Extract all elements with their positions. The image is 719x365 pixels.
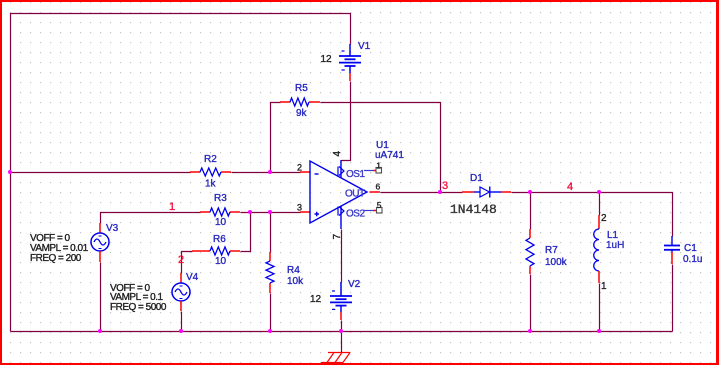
U1 OS2 lead bbox=[364, 210, 373, 212]
wire node 2 horizontal (ground to R2 to U1 pin 2) bbox=[11, 172, 301, 174]
svg-text:10: 10 bbox=[215, 217, 227, 228]
wire L1 branch bbox=[599, 193, 601, 332]
svg-text:FREQ = 5000: FREQ = 5000 bbox=[110, 302, 167, 313]
U1 pin 2 stub bbox=[300, 171, 310, 173]
svg-text:4: 4 bbox=[567, 181, 573, 193]
svg-text:12: 12 bbox=[321, 54, 333, 65]
resistor R4 bbox=[266, 252, 304, 293]
junction at ground rail / V2 and ground symbol bbox=[339, 329, 343, 333]
junction at ground rail / V3 bbox=[98, 329, 102, 333]
svg-text:9k: 9k bbox=[296, 108, 308, 119]
svg-text:R5: R5 bbox=[295, 83, 308, 94]
svg-text:FREQ = 200: FREQ = 200 bbox=[30, 253, 82, 264]
wire C1 bottom to ground rail bbox=[672, 265, 674, 332]
inductor L1 bbox=[594, 213, 625, 292]
wire R4 branch (plus input to ground rail) bbox=[270, 213, 272, 332]
U1 pin 4 stub bbox=[340, 160, 342, 178]
U1 OS1 wedge bbox=[338, 167, 344, 176]
wire bottom ground rail bbox=[11, 331, 673, 333]
U1 pin 1 stub bbox=[373, 170, 377, 172]
junction at ground rail / R4 bbox=[268, 329, 272, 333]
svg-text:1N4148: 1N4148 bbox=[450, 202, 497, 217]
junction at ground rail / R7 bottom bbox=[528, 329, 532, 333]
V1 plus mark bbox=[342, 50, 345, 52]
junction at node 1 / R6 branch bbox=[248, 210, 252, 214]
U1 pin 7 stub bbox=[340, 206, 342, 229]
junction at ground rail / L1 bottom bbox=[597, 329, 601, 333]
junction at ground / node 2 wire bbox=[8, 170, 12, 174]
svg-text:100k: 100k bbox=[545, 257, 568, 268]
resistor R7 bbox=[526, 229, 568, 274]
junction at node 1 / R4 branch bbox=[268, 210, 272, 214]
svg-text:4: 4 bbox=[332, 151, 343, 157]
resistor R2 bbox=[190, 154, 231, 190]
wire V4 bottom to ground rail bbox=[181, 312, 183, 332]
svg-text:6: 6 bbox=[376, 182, 381, 192]
wire R7 branch bbox=[530, 193, 532, 332]
U1 minus input mark bbox=[315, 173, 319, 175]
svg-text:R6: R6 bbox=[213, 234, 226, 245]
svg-text:1uH: 1uH bbox=[606, 240, 624, 251]
svg-text:12: 12 bbox=[310, 294, 322, 305]
U1 plus input mark bbox=[315, 212, 320, 217]
wire V3 bottom to ground rail bbox=[100, 263, 102, 332]
junction at node 2 / R5 branch bbox=[268, 170, 272, 174]
U1 pin 5 stub bbox=[373, 210, 377, 212]
svg-text:OUT: OUT bbox=[345, 189, 365, 200]
svg-text:1: 1 bbox=[376, 160, 381, 170]
V1 minus mark bbox=[342, 69, 345, 71]
svg-text:1: 1 bbox=[169, 201, 175, 213]
svg-text:C1: C1 bbox=[684, 243, 697, 254]
U1 pin 3 stub bbox=[300, 211, 310, 213]
resistor R5 bbox=[280, 83, 320, 119]
svg-text:2: 2 bbox=[178, 254, 184, 266]
source V4 (sine source) bbox=[110, 272, 199, 313]
svg-text:R7: R7 bbox=[545, 245, 558, 256]
svg-text:1k: 1k bbox=[205, 179, 217, 190]
svg-text:V1: V1 bbox=[358, 41, 371, 52]
U1 OS2 wedge bbox=[338, 207, 344, 216]
wire node 4 rail (D1 cathode to C1 top) bbox=[512, 193, 673, 237]
U1 pin 6 OUT stub bbox=[370, 191, 381, 193]
svg-text:0.1u: 0.1u bbox=[683, 254, 702, 265]
diode D1 bbox=[450, 173, 511, 217]
U1 pin 1 terminal square bbox=[376, 168, 382, 174]
svg-text:V3: V3 bbox=[106, 223, 119, 234]
V2 plus mark bbox=[332, 290, 335, 292]
resistor R3 bbox=[200, 193, 240, 228]
junction at node 4 / L1 top bbox=[597, 190, 601, 194]
U1 pin 5 terminal square bbox=[377, 208, 383, 214]
V2 minus mark bbox=[332, 308, 335, 310]
junction at node 3 / feedback bbox=[438, 190, 442, 194]
wire V2 minus to ground rail bbox=[341, 321, 343, 332]
wire R5 feedback loop (node 2 up to R5, over and down to node 3) bbox=[271, 103, 441, 193]
svg-text:V2: V2 bbox=[348, 279, 361, 290]
svg-text:3: 3 bbox=[297, 203, 302, 213]
svg-text:OS2: OS2 bbox=[346, 209, 365, 220]
junction at ground rail / V4 bbox=[179, 329, 183, 333]
svg-text:10k: 10k bbox=[287, 276, 304, 287]
svg-text:D1: D1 bbox=[470, 173, 483, 184]
source V2 (12V battery) bbox=[310, 279, 361, 320]
svg-text:5: 5 bbox=[377, 200, 382, 210]
U1 triangle body bbox=[310, 161, 367, 223]
ground bbox=[321, 353, 350, 363]
svg-text:7: 7 bbox=[332, 234, 343, 240]
wire R6 branch (node 3 down to R6 to node 2 of V4) bbox=[182, 213, 251, 274]
resistor R6 bbox=[192, 234, 240, 267]
svg-text:2: 2 bbox=[297, 163, 302, 173]
wire node 3 output (U1 OUT to D1 anode) bbox=[381, 192, 463, 194]
op-amp U1 bbox=[297, 140, 404, 240]
svg-text:V4: V4 bbox=[186, 272, 199, 283]
source V1 (12V battery) bbox=[321, 41, 371, 81]
wire ground return from V1+ top rail and left column bbox=[11, 14, 351, 332]
svg-text:R4: R4 bbox=[287, 265, 300, 276]
capacitor C1 bbox=[664, 236, 702, 265]
wire V1 minus to U1 pin 4 bbox=[342, 82, 351, 161]
wire ground stem bbox=[341, 332, 343, 353]
svg-text:R2: R2 bbox=[204, 154, 217, 165]
wire U1 pin 7 to V2 plus bbox=[341, 230, 343, 283]
svg-text:3: 3 bbox=[442, 180, 448, 192]
junction at node 4 / R7 top bbox=[528, 190, 532, 194]
svg-text:OS1: OS1 bbox=[346, 169, 365, 180]
U1 OS1 lead bbox=[364, 170, 373, 172]
svg-text:2: 2 bbox=[601, 213, 607, 224]
source V3 (sine source) bbox=[30, 223, 119, 264]
svg-text:10: 10 bbox=[215, 256, 227, 267]
wire node 1 horizontal (V3 to R3 to U1 pin 3) bbox=[101, 213, 301, 224]
svg-text:1: 1 bbox=[601, 281, 607, 292]
svg-text:R3: R3 bbox=[214, 193, 227, 204]
